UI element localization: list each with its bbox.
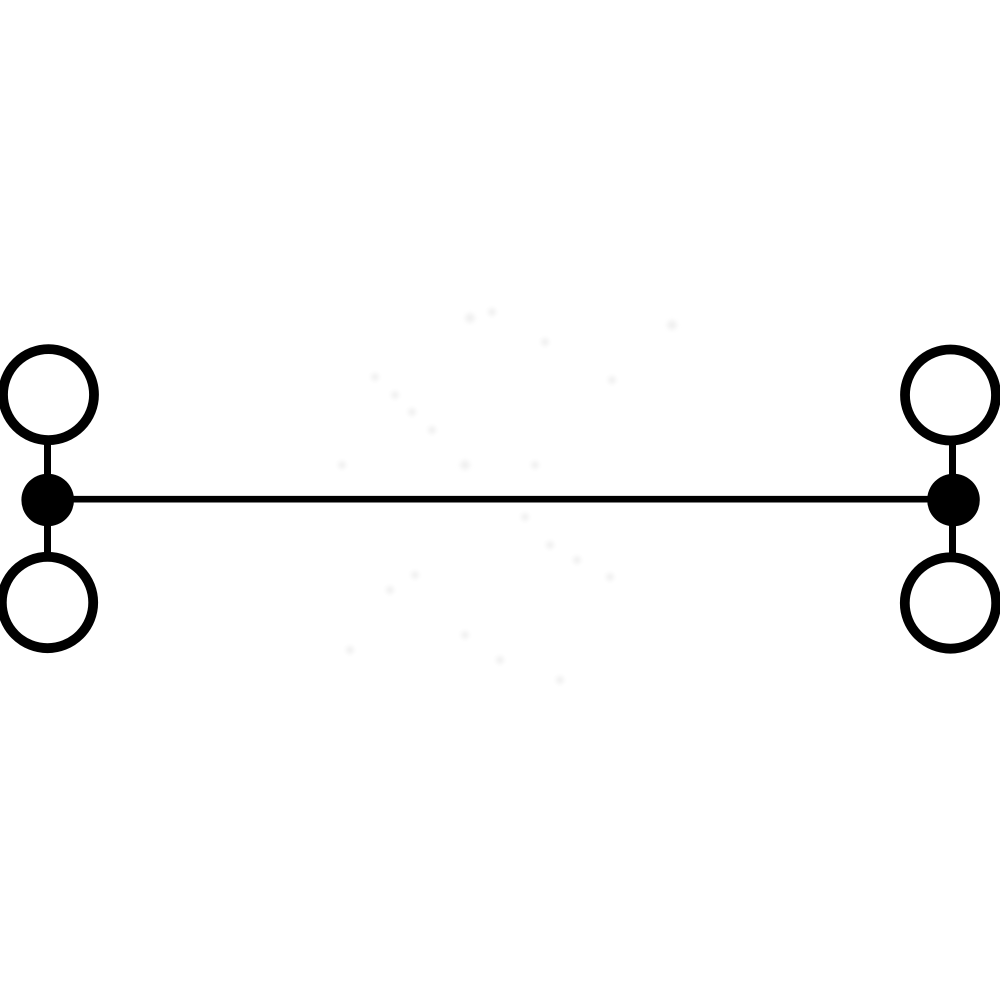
wire: right vertical connector: [949, 400, 956, 600]
junction dot: right node: [927, 474, 980, 527]
terminal circle: right bottom clamp point: [905, 557, 996, 648]
faint watermark speckle: [0, 0, 1, 1]
wire: left vertical connector: [44, 400, 51, 600]
wire: horizontal bus between the two junction dots: [45, 496, 955, 503]
junction dot: left node: [21, 474, 74, 527]
terminal circle: left bottom clamp point: [2, 557, 93, 648]
terminal circle: right top clamp point: [905, 350, 996, 441]
terminal circle: left top clamp point: [3, 349, 94, 440]
